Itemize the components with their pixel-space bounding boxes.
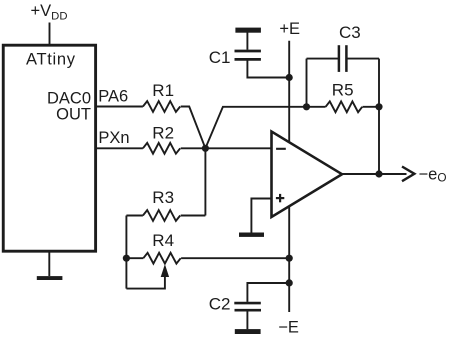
resistor R4 (potentiometer) bbox=[143, 253, 180, 264]
wire non-inverting input to ground bbox=[251, 199, 271, 233]
capacitor C2 ground bar bbox=[235, 329, 261, 334]
svg-text:R1: R1 bbox=[152, 81, 174, 100]
wire C3 loop left vertical bbox=[306, 59, 308, 107]
op-amp plus sign bbox=[276, 197, 284, 199]
capacitor C3 plates bbox=[338, 45, 341, 72]
wire C1 ground stub bbox=[246, 33, 248, 50]
wire R1 to junction (diagonal) bbox=[181, 107, 206, 149]
op-amp U1 triangle bbox=[272, 132, 343, 218]
ground bar below ATtiny bbox=[48, 253, 50, 277]
wire R4 wiper return bottom bbox=[126, 277, 164, 289]
node dot C1/+E bbox=[286, 74, 293, 81]
svg-text:+VDD: +VDD bbox=[31, 2, 68, 22]
wire C1 to +E rail bbox=[247, 61, 289, 78]
wire C2 ground stub bbox=[246, 312, 248, 330]
resistor R1 bbox=[143, 101, 180, 112]
svg-text:R5: R5 bbox=[332, 81, 354, 100]
wire feedback right vertical bbox=[378, 107, 380, 174]
svg-text:R2: R2 bbox=[152, 124, 174, 143]
wire junction down to R3 bbox=[204, 148, 206, 215]
svg-text:OUT: OUT bbox=[56, 105, 91, 123]
svg-text:R4: R4 bbox=[152, 231, 174, 250]
svg-text:C3: C3 bbox=[339, 23, 361, 42]
svg-text:ATtiny: ATtiny bbox=[26, 50, 76, 68]
wire C3 loop right vertical bbox=[378, 59, 380, 107]
capacitor C2 plates bbox=[234, 302, 260, 305]
node dot R5 right bbox=[375, 103, 382, 110]
wire C3 loop top right bbox=[346, 58, 379, 60]
wire R3 right lead bbox=[181, 215, 206, 217]
svg-text:+E: +E bbox=[279, 20, 300, 38]
wire R3 left lead bbox=[126, 215, 142, 217]
svg-text:R3: R3 bbox=[152, 188, 174, 207]
wire R2 to junction bbox=[181, 147, 206, 149]
resistor R2 bbox=[143, 143, 180, 154]
svg-text:C1: C1 bbox=[209, 48, 231, 67]
wire op-amp output bbox=[342, 173, 407, 175]
IC U1 ATtiny box bbox=[3, 45, 95, 251]
wire junction diagonal up to feedback line bbox=[205, 107, 306, 149]
node dot R4/-E rail bbox=[286, 255, 293, 262]
capacitor C1 plates bbox=[235, 50, 261, 53]
wire R5 right lead bbox=[363, 106, 380, 108]
resistor R3 bbox=[143, 210, 180, 221]
op-amp minus sign bbox=[276, 148, 286, 150]
wire C3 loop top left bbox=[307, 58, 339, 60]
svg-text:−eO: −eO bbox=[419, 165, 447, 184]
node dot R5 left bbox=[303, 103, 310, 110]
wire C2 to rail bbox=[247, 283, 289, 302]
resistor R5 bbox=[326, 101, 363, 112]
svg-text:PA6: PA6 bbox=[98, 88, 128, 106]
wire R4 left lead bbox=[126, 257, 143, 259]
wire R4 right lead to -E rail bbox=[181, 257, 289, 259]
node junction dot R1/R2 bbox=[202, 145, 209, 152]
node dot C2/-E rail bbox=[286, 279, 293, 286]
wire VDD stub to ATtiny bbox=[49, 23, 51, 46]
R4 wiper arrowhead bbox=[161, 264, 169, 277]
output arrowhead bbox=[402, 167, 414, 182]
wire junction to op-amp inverting input bbox=[205, 147, 271, 149]
svg-text:C2: C2 bbox=[209, 294, 231, 313]
svg-text:PXn: PXn bbox=[98, 129, 129, 147]
capacitor C1 ground bar bbox=[235, 28, 261, 33]
svg-text:−E: −E bbox=[278, 319, 299, 337]
wire PA6 pin to R1 bbox=[97, 106, 143, 108]
wire PXn pin to R2 bbox=[97, 147, 143, 149]
wire left vertical R3 to wiper return bbox=[125, 216, 127, 289]
node dot output bbox=[375, 170, 382, 177]
ground bar at op-amp + input bbox=[239, 233, 264, 237]
node dot R4 left bbox=[123, 255, 130, 262]
power rail +E to -E vertical wire bbox=[288, 41, 290, 312]
wire R5 left lead bbox=[307, 106, 326, 108]
